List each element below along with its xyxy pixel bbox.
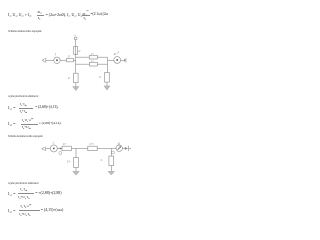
ground G2 <box>104 86 110 90</box>
port P2 tick <box>125 58 127 63</box>
fraction with exponent <box>83 10 89 17</box>
resistor R7 (series ZE) <box>62 146 71 150</box>
wire source to R1 <box>60 59 66 61</box>
svg-text:Zᴬ: Zᴬ <box>63 142 67 146</box>
svg-text:Zᵒᴹ: Zᵒᴹ <box>89 143 94 146</box>
wire lower parallel path left <box>76 63 90 65</box>
fraction (2.89) numerator <box>21 204 32 209</box>
resistor R4 (lower parallel) <box>90 62 98 66</box>
svg-text:βI: βI <box>118 142 120 145</box>
wire source 2 to port P2 <box>121 59 124 61</box>
port P1 left terminal arrow <box>42 59 45 62</box>
port P3 tick <box>45 147 47 151</box>
node u1 annotation circle <box>59 152 62 155</box>
equation (2.89) rhs <box>41 208 63 212</box>
fraction dI2/dt <box>38 10 42 15</box>
ground G3 <box>73 171 80 175</box>
resistor R5 (left shunt) <box>74 73 79 83</box>
caption: admittance 1 <box>8 94 39 98</box>
resistor R2 (top branch) <box>74 46 78 54</box>
wire R10 to ground <box>110 166 112 172</box>
equation (2.69) lhs <box>8 121 16 127</box>
wire terminal to source I1 <box>46 147 51 149</box>
circuit 2 svg <box>0 0 170 240</box>
wire upper parallel path left <box>76 56 90 58</box>
port P4 arrowhead <box>125 147 128 150</box>
equation (2.68) rhs <box>35 105 58 109</box>
equation (2.89) lhs <box>8 208 16 214</box>
equation (2.88) lhs <box>8 191 16 197</box>
arrow mark above source 2 <box>117 52 119 54</box>
ground G4 <box>108 171 115 175</box>
wire node C to source 2 <box>108 59 114 61</box>
wire upper parallel path right <box>97 56 107 58</box>
resistor R1 (series) <box>67 59 74 62</box>
node u2 annotation circle <box>111 151 114 154</box>
dependent source circle right <box>116 145 122 151</box>
wire R1 to node B <box>74 59 76 61</box>
caption: admittance 2 <box>8 181 39 185</box>
current source I1 (circle) <box>54 57 60 63</box>
dependent source dot <box>116 59 118 61</box>
caption: schema 1 <box>8 29 42 33</box>
dependent source arrow <box>118 148 120 150</box>
port P1 tick <box>45 58 47 63</box>
wire source 2 to port P4 <box>122 147 124 149</box>
terminal b top circle <box>74 37 77 40</box>
wire R8 to source 2 <box>97 147 116 149</box>
resistor R8 (series ZKB) <box>88 146 97 150</box>
wire R9 to ground <box>75 167 77 171</box>
equation (2.68) lhs <box>8 105 16 111</box>
caption: schema 2 <box>8 134 43 138</box>
wire R6 to ground <box>106 82 108 86</box>
resistor R10 (right shunt Zi) <box>109 156 114 165</box>
port P2 arrowhead <box>124 59 126 62</box>
dependent source circle right <box>114 57 121 64</box>
wire source to R7 <box>57 147 62 149</box>
resistor R6 (right shunt) <box>105 73 110 83</box>
equation (2.88) rhs <box>35 191 61 195</box>
wire R7 to R8 <box>71 147 88 149</box>
current source I1 dot <box>56 59 58 61</box>
current source I1 circle <box>50 145 57 152</box>
wire R5 to ground <box>75 83 77 87</box>
current source I1 dot <box>53 147 55 149</box>
port P4 stub wire <box>129 147 131 149</box>
fraction (2.88) numerator <box>20 187 27 192</box>
ground G1 <box>73 87 79 91</box>
wire lower parallel path right <box>97 63 107 65</box>
node D branch wire down <box>75 148 77 157</box>
fraction (2.69) numerator <box>22 118 34 123</box>
equation line (2.66) top <box>8 12 32 18</box>
svg-text:Zᵢ: Zᵢ <box>101 159 104 162</box>
resistor R9 (left shunt ZKE) <box>74 158 79 168</box>
port P4 tick <box>128 146 130 151</box>
resistor R3 (upper parallel) <box>90 55 98 59</box>
node B vertical bus <box>75 40 77 73</box>
circuit 1 svg <box>0 0 170 240</box>
node E branch wire down <box>110 148 112 156</box>
svg-text:I̲: I̲ <box>52 142 54 145</box>
node C vertical bus <box>107 57 109 72</box>
wire terminal to source <box>46 59 54 61</box>
svg-text:Zᵒᴬ: Zᵒᴬ <box>67 160 72 164</box>
equation (2.69) rhs <box>39 121 62 125</box>
node u1 dot <box>60 148 62 150</box>
fraction (2.68) numerator <box>20 102 27 107</box>
port P3 arrow <box>42 147 45 150</box>
